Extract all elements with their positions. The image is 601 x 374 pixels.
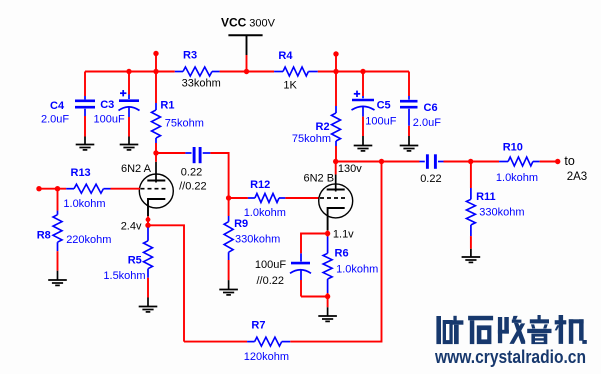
- junction VCC rail: [244, 69, 249, 74]
- logo char shi: [468, 316, 493, 321]
- svg-text:0.22: 0.22: [181, 167, 202, 179]
- node stub left: [155, 54, 157, 72]
- capacitor bypass 100uF: [300, 253, 302, 261]
- resistor R2: [335, 72, 337, 107]
- svg-text:C5: C5: [377, 99, 391, 111]
- svg-text:R6: R6: [335, 248, 349, 260]
- wire plate A node: [156, 152, 185, 154]
- svg-text:6N2 A: 6N2 A: [121, 163, 152, 175]
- resistor R3: [175, 71, 183, 73]
- wire 130v to cap2: [336, 161, 420, 163]
- ground R8: [48, 279, 67, 281]
- svg-text:330kohm: 330kohm: [479, 206, 524, 218]
- svg-text:C6: C6: [424, 102, 438, 114]
- svg-text:R13: R13: [71, 167, 91, 179]
- node stub right: [335, 54, 337, 72]
- junction feedback node: [379, 159, 384, 164]
- capacitor 0.22 coupling2: [420, 161, 425, 163]
- ground C5: [354, 145, 373, 147]
- ground R9: [219, 289, 238, 291]
- svg-text:1.0kohm: 1.0kohm: [244, 207, 286, 219]
- svg-text:1.0kohm: 1.0kohm: [496, 172, 538, 184]
- svg-text:75kohm: 75kohm: [292, 133, 331, 145]
- svg-text://0.22: //0.22: [257, 275, 285, 287]
- junction R12 R9: [226, 195, 231, 200]
- svg-text:2.0uF: 2.0uF: [41, 114, 69, 126]
- ground C4: [76, 144, 95, 146]
- node cathode A pin: [146, 217, 151, 222]
- wire cap2 to R11: [444, 161, 471, 163]
- junction C3 rail: [126, 69, 131, 74]
- resistor R6: [327, 234, 329, 237]
- svg-text:R8: R8: [37, 229, 51, 241]
- wire R11 to R10: [471, 161, 499, 163]
- ground R6: [318, 315, 337, 317]
- ground R11: [462, 256, 481, 258]
- wire coupling1 to R12: [210, 153, 228, 198]
- junction 1.1v node: [325, 231, 330, 236]
- tube U2 6N2-B: [319, 184, 353, 218]
- resistor R8: [57, 189, 59, 211]
- wire to output: [540, 161, 558, 163]
- wire input: [39, 188, 66, 190]
- junction R8 grid: [55, 186, 60, 191]
- resistor R13: [66, 188, 74, 190]
- svg-text:100uF: 100uF: [365, 116, 396, 128]
- svg-text:R12: R12: [250, 179, 270, 191]
- svg-text:R1: R1: [160, 100, 174, 112]
- junction plate A node: [153, 150, 158, 155]
- wire R13 to grid A: [111, 188, 141, 190]
- ground C6: [400, 145, 419, 147]
- junction 130v node: [333, 159, 338, 164]
- logo char kuang: [436, 316, 441, 344]
- svg-text:C3: C3: [100, 99, 114, 111]
- resistor R11: [470, 162, 472, 189]
- svg-text:330kohm: 330kohm: [235, 234, 280, 246]
- resistor R5: [147, 228, 149, 241]
- svg-text:2A3: 2A3: [567, 171, 587, 183]
- ground R5: [139, 306, 158, 308]
- svg-text:0.22: 0.22: [420, 173, 441, 185]
- svg-text:33kohm: 33kohm: [182, 77, 221, 89]
- svg-text:1K: 1K: [283, 79, 297, 91]
- svg-text:R3: R3: [183, 49, 197, 61]
- svg-text://0.22: //0.22: [179, 181, 207, 193]
- svg-text:R10: R10: [503, 142, 523, 154]
- svg-text:C4: C4: [50, 100, 65, 112]
- capacitor C5: [362, 72, 364, 97]
- svg-text:R5: R5: [128, 255, 142, 267]
- svg-text:R9: R9: [234, 218, 248, 230]
- svg-text:100uF: 100uF: [255, 259, 286, 271]
- junction R11 node: [468, 159, 473, 164]
- wire bypass top: [301, 234, 328, 254]
- svg-text:2.4v: 2.4v: [121, 221, 142, 233]
- svg-text:R11: R11: [476, 191, 496, 203]
- resistor R1: [155, 72, 157, 104]
- svg-text:to: to: [564, 154, 574, 168]
- logo char yin: [538, 315, 541, 320]
- node input terminal: [36, 186, 41, 191]
- resistor R10: [499, 161, 508, 163]
- svg-text:75kohm: 75kohm: [165, 118, 204, 130]
- svg-text:1.0kohm: 1.0kohm: [336, 264, 378, 276]
- resistor R12: [229, 197, 248, 199]
- svg-text:130v: 130v: [338, 163, 362, 175]
- wire R12 to grid B: [285, 197, 319, 199]
- svg-text:1.1v: 1.1v: [333, 229, 354, 241]
- logo char shou: [498, 317, 502, 343]
- svg-text:220kohm: 220kohm: [66, 234, 111, 246]
- capacitor 0.22 coupling1: [185, 152, 191, 154]
- wire bottom right: [290, 162, 381, 342]
- svg-text:300V: 300V: [249, 18, 275, 30]
- junction R1 rail: [153, 69, 158, 74]
- svg-text:2.0uF: 2.0uF: [413, 117, 441, 129]
- wire cathode A: [147, 216, 149, 225]
- wire cathode B: [327, 230, 329, 233]
- svg-text:100uF: 100uF: [94, 114, 125, 126]
- svg-text:www.crystalradio.cn: www.crystalradio.cn: [434, 347, 586, 367]
- capacitor C6: [408, 72, 410, 97]
- capacitor C3: [128, 72, 130, 95]
- wire bottom left: [184, 341, 247, 343]
- ground C3: [120, 144, 139, 146]
- wire VCC rail: [85, 71, 175, 73]
- junction 2.4v node: [145, 223, 150, 228]
- junction R2 rail: [333, 69, 338, 74]
- resistor R4: [274, 71, 283, 73]
- power VCC symbol: [228, 34, 262, 36]
- svg-text:VCC: VCC: [221, 16, 247, 30]
- wire bypass bottom: [301, 296, 328, 298]
- svg-text:6N2 B: 6N2 B: [304, 173, 335, 185]
- svg-text:R7: R7: [251, 319, 265, 331]
- junction C5 rail: [360, 69, 365, 74]
- wire R6 to ground: [327, 297, 329, 308]
- resistor R7: [247, 341, 255, 343]
- logo char ji: [559, 315, 564, 344]
- capacitor C4: [84, 72, 86, 97]
- svg-text:1.5kohm: 1.5kohm: [103, 270, 145, 282]
- wire feedback left: [148, 225, 184, 341]
- resistor R9: [228, 198, 230, 216]
- svg-text:120kohm: 120kohm: [244, 351, 289, 363]
- tube U1 6N2-A: [139, 174, 173, 208]
- node output terminal: [555, 159, 560, 164]
- svg-text:1.0kohm: 1.0kohm: [63, 198, 105, 210]
- junction R6 ground node: [325, 294, 330, 299]
- svg-text:R4: R4: [278, 50, 293, 62]
- svg-text:R2: R2: [316, 121, 330, 133]
